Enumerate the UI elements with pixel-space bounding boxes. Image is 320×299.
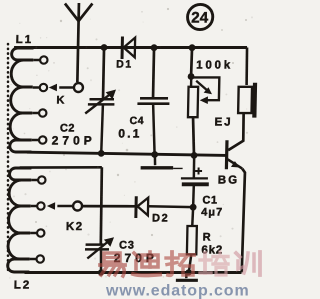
svg-text:K2: K2 (66, 221, 84, 233)
svg-text:BG: BG (218, 175, 240, 187)
wire mid bus (27, 152, 227, 155)
node L1 tap 2 terminal (40, 84, 48, 91)
svg-text:EJ: EJ (214, 117, 232, 129)
svg-text:D1: D1 (116, 59, 133, 71)
svg-text:K: K (56, 95, 64, 107)
wire right top (246, 48, 247, 86)
node L2 tap 3 terminal (37, 229, 45, 236)
node L2 tap 1 terminal (38, 176, 46, 183)
node junction R-bus (185, 269, 192, 275)
wire K2-D2 (82, 205, 136, 208)
diode D2 (136, 196, 193, 224)
ground bottom (176, 273, 198, 281)
diode D1 (116, 37, 135, 71)
node L1 tap 1 terminal (40, 56, 48, 63)
figure number 24 badge (187, 4, 213, 29)
node junction bus-C1 (191, 152, 198, 159)
capacitor C2 variable (51, 90, 116, 154)
svg-text:L2: L2 (14, 280, 32, 292)
wire C4 top (153, 48, 154, 99)
node L1 tap 4 terminal (39, 136, 47, 143)
watermark red characters (100, 252, 260, 276)
wire L2 tap 2 (31, 205, 38, 208)
watermark char 2 (133, 252, 160, 275)
resistor R 6k2 (187, 207, 224, 272)
svg-text:C3: C3 (119, 240, 135, 252)
node L1 tap 3 terminal (39, 109, 47, 116)
svg-text:0.1: 0.1 (118, 127, 142, 141)
ferrite core dashed line (7, 44, 10, 270)
svg-text:C1: C1 (202, 195, 217, 207)
node junction top-C4 (151, 44, 158, 51)
capacitor C3 variable (85, 237, 159, 272)
inductor L2 (7, 168, 33, 291)
switch K wiper (48, 83, 83, 106)
wire L2 top (20, 166, 102, 169)
wire pot top (190, 48, 194, 76)
node junction top-C2 (101, 44, 108, 51)
wire EJ-collector (228, 113, 244, 150)
svg-text:L1: L1 (16, 34, 34, 46)
watermark char 3 (166, 252, 194, 275)
node L2 tap 4 terminal (36, 255, 44, 262)
svg-text:24: 24 (191, 10, 209, 27)
watermark char 1 (100, 253, 125, 276)
wire emitter down (240, 169, 245, 273)
node L2 tap 2 terminal (37, 202, 45, 209)
ground near C4 (141, 155, 183, 168)
wire L2 tap 4 (30, 258, 37, 261)
node junction pot wiper (188, 73, 195, 80)
transistor BG (218, 140, 243, 186)
node junction C1-D2-R (190, 204, 197, 211)
node junction C4-bus (151, 151, 158, 158)
wire L1 tap 4 (32, 139, 39, 142)
wire L1 tap 2 (33, 86, 40, 89)
wire L1 tap 3 (32, 112, 39, 115)
capacitor C4 (118, 98, 170, 154)
antenna (63, 3, 92, 82)
earphone EJ (214, 83, 257, 129)
svg-text:C4: C4 (129, 115, 144, 127)
svg-text:4μ7: 4μ7 (201, 207, 223, 219)
svg-text:100k: 100k (196, 60, 233, 72)
wire L2 tap 1 (31, 179, 38, 182)
wire C3 column top (100, 167, 102, 244)
switch K2 wiper (46, 202, 84, 233)
watermark char 5 (236, 252, 260, 275)
wire pot bottom (192, 117, 194, 155)
svg-text:www.edatop.com: www.edatop.com (105, 283, 250, 299)
wire bottom bus (25, 271, 242, 274)
capacitor C1 4u7 electrolytic (180, 155, 224, 218)
svg-text:R: R (203, 232, 211, 244)
node junction C3-bus (98, 269, 105, 275)
node junction C2-bus (98, 150, 105, 157)
wire L2 tap 3 (30, 232, 37, 235)
node junction top-pot (189, 44, 196, 51)
wire L1 tap 1 (33, 59, 40, 62)
wire C2 top (103, 48, 104, 100)
inductor L1 (10, 34, 34, 152)
watermark char 4 (200, 252, 228, 275)
potentiometer RP 100k (188, 60, 233, 118)
wire top bus (14, 46, 247, 49)
svg-text:270P: 270P (52, 134, 96, 148)
svg-text:D2: D2 (152, 213, 169, 225)
